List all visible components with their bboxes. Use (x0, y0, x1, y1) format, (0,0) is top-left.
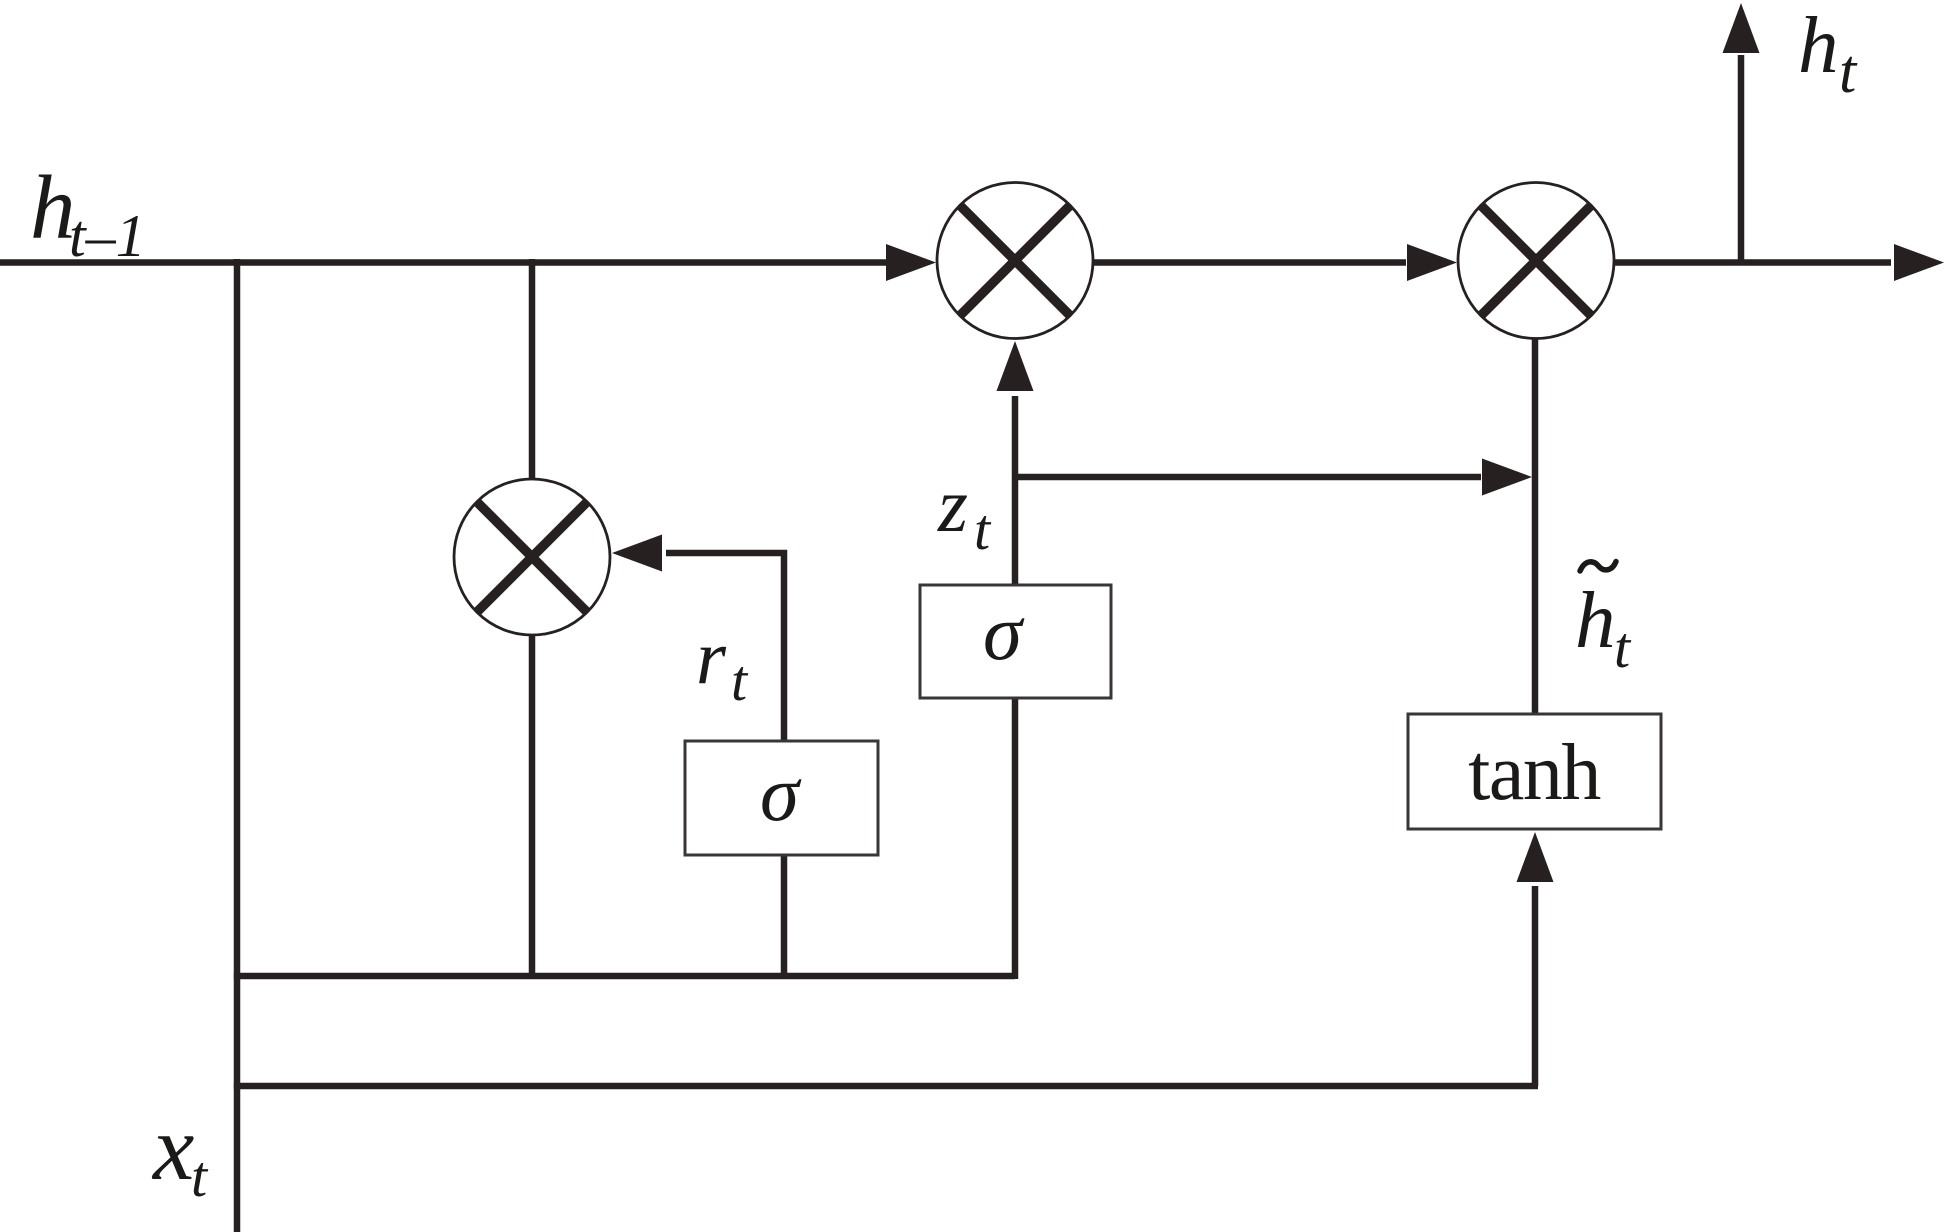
multiplier M1 (937, 183, 1093, 339)
arrowhead into M2 (1407, 244, 1457, 281)
multiplier M3 (454, 479, 610, 635)
wire M2 to output (1612, 259, 1891, 266)
svg-text:h: h (1575, 575, 1616, 665)
sigma box for r_t (685, 741, 878, 855)
arrowhead output right (1894, 244, 1944, 281)
svg-text:x: x (151, 1097, 194, 1200)
wire lower bus 2 (234, 1083, 1538, 1090)
svg-text:σ: σ (760, 751, 802, 838)
wire h_t output up arrow shaft (1738, 55, 1745, 263)
svg-text:t: t (974, 497, 992, 562)
wire between multiplier M1 and M2 (1091, 259, 1406, 266)
wire z_t shaft sigma-z to M1 (1012, 396, 1019, 585)
svg-text:z: z (937, 462, 968, 548)
label h~_t (candidate hidden state) (1575, 562, 1632, 681)
label x_t (151, 1097, 209, 1209)
wire x_t vertical bus (234, 259, 241, 1232)
wire M3 bottom to lower bus (529, 634, 536, 979)
svg-text:r: r (696, 614, 727, 700)
wire M2 bottom to tanh box (1532, 338, 1539, 714)
svg-text:h: h (1798, 0, 1839, 90)
sigma box for z_t (920, 585, 1111, 698)
arrowhead z_t branch into M2 drop (1482, 459, 1532, 496)
wire r_t feedback into M3 (666, 553, 784, 741)
wire h(t-1) input line (0, 259, 888, 266)
wire lower bus to sigma-z box (1012, 698, 1019, 979)
wire sigma-r box down to lower bus (781, 855, 788, 979)
label z_t (937, 462, 992, 562)
svg-text:t–1: t–1 (69, 203, 146, 269)
arrowhead h_t up (1723, 3, 1760, 53)
multiplier M2 (1458, 183, 1614, 339)
svg-text:tanh: tanh (1468, 729, 1600, 817)
label h_t (1798, 0, 1858, 106)
arrowhead into M1 (886, 244, 936, 281)
svg-text:σ: σ (983, 590, 1025, 677)
svg-text:t: t (191, 1144, 209, 1209)
wire x_t riser into tanh (1532, 886, 1539, 1086)
svg-text:t: t (1614, 615, 1632, 680)
wire h(t-1) drop to multiplier M3 (529, 259, 536, 480)
arrowhead z_t into M1 (997, 341, 1034, 391)
label h_{t-1} (30, 157, 146, 269)
svg-text:t: t (1839, 38, 1858, 106)
wire z_t branch to M2 drop (1015, 474, 1481, 481)
arrowhead into tanh bottom (1517, 832, 1554, 882)
label r_t (696, 614, 749, 713)
wire lower bus 1 (234, 973, 1015, 980)
arrowhead r_t into M3 (612, 535, 662, 572)
svg-text:t: t (731, 648, 749, 713)
tanh box (1408, 714, 1661, 829)
